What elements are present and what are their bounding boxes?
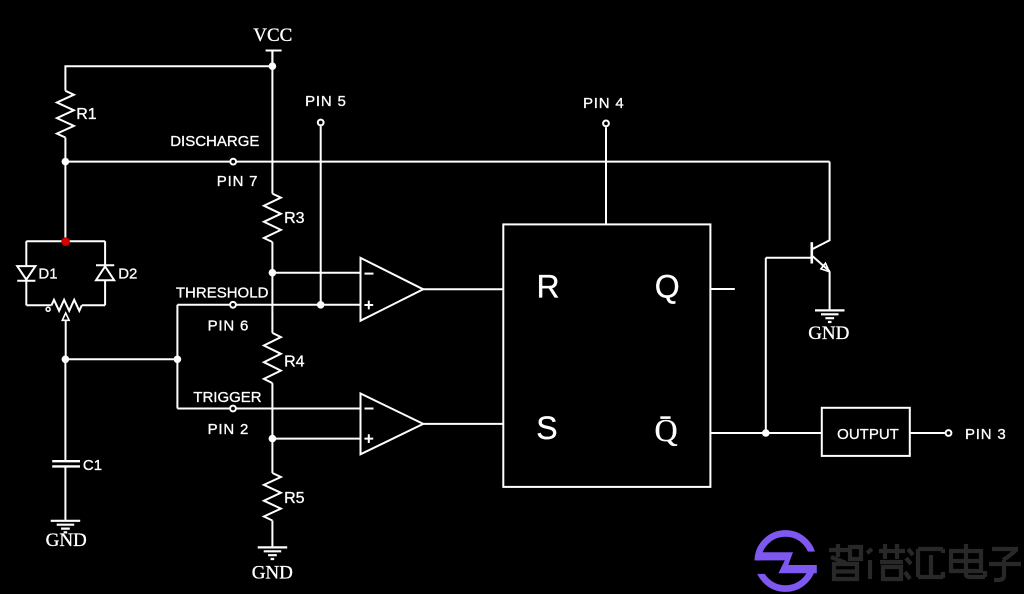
svg-text:PIN 7: PIN 7 bbox=[217, 173, 259, 190]
ground under C1 bbox=[51, 521, 80, 533]
svg-text:GND: GND bbox=[46, 530, 87, 551]
wire Qbar node to base vertical bbox=[765, 258, 767, 433]
wire THRESHOLD bbox=[177, 304, 360, 306]
logo text char 2 bbox=[867, 544, 905, 579]
svg-text:PIN 6: PIN 6 bbox=[208, 318, 250, 335]
wire PIN4 vertical bbox=[605, 127, 607, 224]
resistor R3 bbox=[264, 194, 281, 242]
wiper arrow wire bbox=[65, 320, 67, 359]
op-amp U1 plus sign bbox=[364, 301, 373, 310]
transistor Q1 collector bbox=[813, 162, 830, 249]
svg-text:S: S bbox=[536, 410, 557, 446]
op-amp U2 minus sign bbox=[365, 408, 374, 410]
wire diode box top bbox=[26, 240, 105, 242]
diode D1 bbox=[17, 266, 35, 281]
wire D2 branch top bbox=[104, 241, 106, 265]
wire D2 bottom bbox=[104, 280, 106, 305]
terminal PIN2 bbox=[230, 406, 236, 412]
wire D1 bottom bbox=[25, 281, 27, 306]
red junction node diodes bbox=[61, 237, 70, 246]
wire transistor base bbox=[766, 257, 811, 259]
wire PIN5 vertical bbox=[320, 126, 322, 305]
wiper terminal circle bbox=[46, 307, 50, 311]
wire VCC horizontal to R1 bbox=[64, 66, 272, 91]
svg-text:PIN 4: PIN 4 bbox=[583, 95, 625, 112]
logo text char 1 bbox=[829, 544, 861, 579]
junction node VCC bbox=[269, 62, 277, 70]
svg-text:TRIGGER: TRIGGER bbox=[193, 389, 262, 406]
svg-text:OUTPUT: OUTPUT bbox=[837, 426, 899, 443]
wire Qbar output bbox=[710, 432, 821, 434]
svg-text:PIN 2: PIN 2 bbox=[208, 421, 250, 438]
resistor R4 bbox=[264, 333, 281, 383]
op-amp U1 minus sign bbox=[365, 273, 374, 275]
wire Q output stub bbox=[710, 288, 734, 290]
wire U2 output to S bbox=[423, 423, 503, 425]
wire R3 to R4 bbox=[271, 242, 273, 333]
op-amp U2 comparator bbox=[361, 394, 424, 455]
ground under transistor bbox=[815, 310, 845, 322]
op-amp U1 comparator bbox=[361, 258, 424, 321]
wire D1 branch top bbox=[25, 241, 27, 266]
junction node R3-R4 bbox=[269, 269, 277, 277]
svg-text:GND: GND bbox=[252, 562, 293, 583]
junction node R4-R5 bbox=[269, 435, 277, 443]
wire discharge node down to diode box bbox=[64, 162, 66, 242]
wire box bottom left bbox=[26, 304, 51, 306]
flip-flop box bbox=[503, 224, 710, 487]
resistor R1 bbox=[57, 91, 74, 138]
output box bbox=[822, 408, 910, 456]
logo text char 3 bbox=[905, 549, 943, 579]
logo text char 4 bbox=[951, 544, 985, 577]
svg-text:C1: C1 bbox=[83, 457, 102, 474]
svg-text:R4: R4 bbox=[284, 354, 305, 371]
svg-text:VCC: VCC bbox=[253, 25, 292, 46]
logo ring gap band bbox=[750, 560, 820, 565]
wire node down to C1 bbox=[64, 359, 66, 461]
wire DISCHARGE horizontal bbox=[65, 161, 829, 163]
junction node C1 top bbox=[62, 356, 70, 364]
potentiometer zigzag bbox=[52, 300, 82, 311]
svg-text:R3: R3 bbox=[284, 210, 305, 227]
resistor R5 bbox=[264, 473, 281, 521]
wire R4 to R5 bbox=[271, 383, 273, 473]
terminal PIN6 bbox=[230, 302, 236, 308]
wiper arrowhead bbox=[62, 313, 69, 320]
wire comparator2 plus input bbox=[272, 438, 360, 440]
diode D2 bbox=[96, 265, 114, 280]
svg-text:R5: R5 bbox=[284, 490, 305, 507]
wire R1 bottom to discharge node bbox=[64, 138, 66, 162]
label Qbar macron bbox=[660, 416, 670, 419]
logo ring gap right bbox=[796, 552, 820, 561]
transistor Q1 emitter bbox=[813, 256, 830, 310]
capacitor C1 bbox=[52, 461, 80, 466]
svg-text:D1: D1 bbox=[38, 266, 57, 283]
svg-text:Q: Q bbox=[655, 269, 680, 305]
junction node riser bbox=[174, 356, 182, 364]
power symbol VCC bbox=[266, 51, 282, 67]
junction node discharge-R1 bbox=[62, 158, 70, 166]
svg-text:D2: D2 bbox=[118, 266, 137, 283]
transistor Q1 base bar bbox=[810, 242, 813, 263]
svg-text:R: R bbox=[537, 269, 560, 305]
wire comparator1 minus input bbox=[272, 272, 360, 274]
terminal PIN5 bbox=[318, 120, 324, 126]
wire box bottom right bbox=[82, 304, 105, 306]
svg-text:R1: R1 bbox=[76, 106, 97, 123]
ground under R5 bbox=[258, 547, 288, 559]
wire U1 output to R bbox=[423, 288, 503, 290]
wire output to PIN3 bbox=[910, 432, 945, 434]
terminal PIN7 bbox=[230, 159, 236, 165]
svg-text:PIN 3: PIN 3 bbox=[965, 426, 1007, 443]
wire C1 to ground bbox=[64, 466, 66, 520]
wire R5 to ground bbox=[271, 521, 273, 548]
junction node pin5-threshold bbox=[317, 301, 325, 309]
svg-text:THRESHOLD: THRESHOLD bbox=[176, 285, 269, 302]
svg-text:DISCHARGE: DISCHARGE bbox=[170, 133, 259, 150]
logo ring bbox=[758, 533, 813, 588]
junction node Qbar-base bbox=[762, 429, 770, 437]
svg-text:GND: GND bbox=[808, 323, 849, 344]
wire TRIGGER bbox=[177, 408, 360, 410]
logo text char 5 bbox=[989, 549, 1021, 580]
terminal PIN3 bbox=[946, 430, 952, 436]
terminal PIN4 bbox=[603, 121, 609, 127]
wire node to riser bbox=[65, 358, 177, 360]
svg-text:PIN 5: PIN 5 bbox=[305, 93, 347, 110]
wire riser threshold-trigger bbox=[176, 305, 178, 409]
wire main divider top bbox=[271, 51, 273, 194]
transistor Q1 emitter arrowhead bbox=[821, 263, 829, 271]
logo ring gap left bbox=[751, 565, 778, 574]
logo bolt bbox=[756, 552, 816, 573]
op-amp U2 plus sign bbox=[364, 434, 373, 443]
